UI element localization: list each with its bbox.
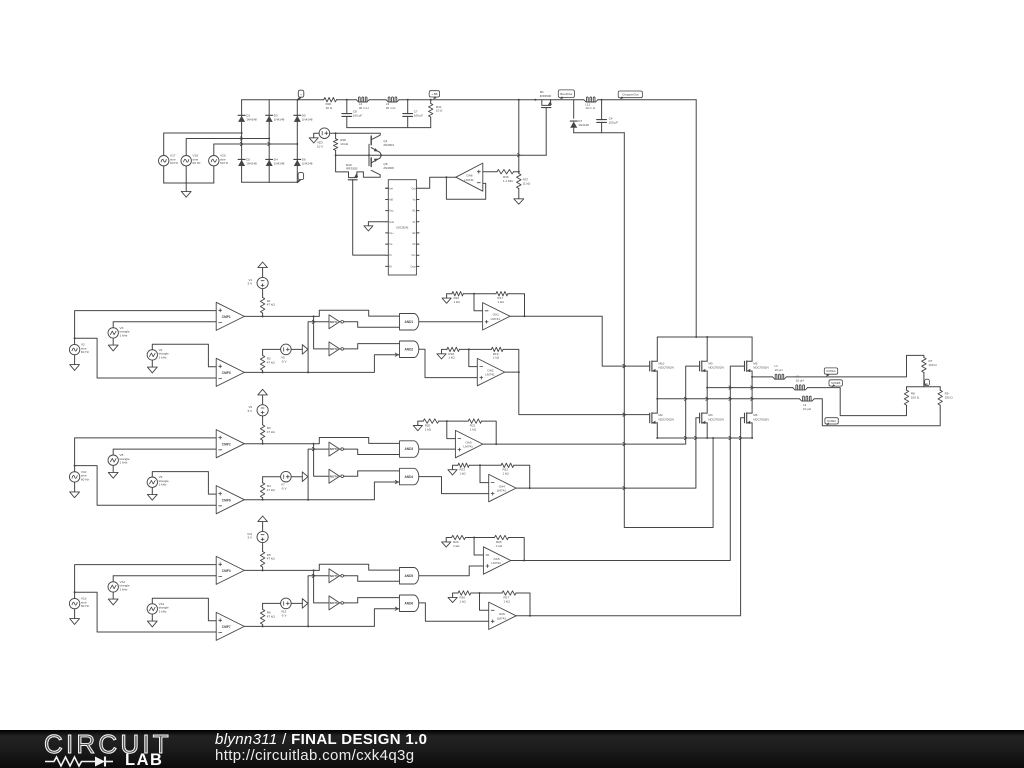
resistor R19 1k [491, 347, 503, 360]
wire M6 source [751, 423, 753, 439]
source V19 sine 60Hz [181, 154, 201, 166]
svg-text:2N3906: 2N3906 [383, 166, 394, 170]
transistor Q8 2N3906 [363, 152, 394, 177]
svg-text:LM741: LM741 [463, 445, 473, 449]
wire R16 to inverting node [463, 293, 496, 295]
wire V8 to CMP2 minus [113, 449, 216, 455]
svg-text:1 kΩ: 1 kΩ [448, 356, 455, 360]
svg-text:1 kΩ: 1 kΩ [493, 356, 500, 360]
wire plus input OA4 [419, 477, 489, 494]
inverter NOT1 [329, 315, 345, 329]
ground R26 [448, 593, 458, 603]
svg-text:+ BB: + BB [431, 92, 437, 96]
svg-text:1 kHz: 1 kHz [159, 355, 167, 359]
source V11 5V [247, 516, 268, 543]
svg-text:1N4148: 1N4148 [302, 118, 313, 122]
node flag NODEA [824, 368, 837, 377]
wire V3 to CMP1 minus [113, 322, 216, 328]
wire rectifier top bus [242, 99, 298, 101]
node flag BuckOut [558, 90, 574, 100]
svg-text:AND3: AND3 [405, 447, 414, 451]
svg-text:1 kHz: 1 kHz [120, 333, 128, 337]
comparator CMP3 [216, 556, 244, 584]
wire V20 to bridge column [214, 143, 298, 183]
wire OA4 output to gate [516, 418, 700, 488]
svg-text:1 kHz: 1 kHz [120, 587, 128, 591]
svg-text:InB: InB [389, 199, 393, 202]
comparator CMP2 [216, 430, 244, 458]
svg-text:NOT2: NOT2 [330, 347, 338, 351]
node flag N [924, 379, 929, 386]
svg-text:10 V: 10 V [317, 145, 323, 149]
wire CMP3 to AND5 [314, 564, 400, 570]
svg-text:AND5: AND5 [405, 574, 414, 578]
footer text [215, 732, 427, 764]
wire V13 to CMP3 plus [74, 565, 217, 599]
node flag bridge negative corner [297, 173, 303, 183]
wire M4 drain [706, 388, 709, 414]
svg-text:5 V: 5 V [248, 409, 253, 413]
svg-text:1 kΩ: 1 kΩ [503, 472, 510, 476]
resistor R20 1k [423, 419, 439, 432]
source V4 triangle 1kHz [147, 348, 169, 360]
resistor R36 1.1M [497, 170, 514, 183]
diode D2 1N4148 [238, 158, 257, 166]
svg-text:NDC7002N: NDC7002N [753, 366, 768, 370]
wire inverting input OA3 [447, 421, 456, 439]
transistor M3 NDC7002N [700, 361, 724, 372]
resistor R8 100 Ohm [904, 387, 919, 410]
source V3 triangle 1kHz [108, 326, 130, 338]
ground V3 [108, 338, 118, 351]
source V6 5V [248, 389, 269, 416]
source V8 triangle 1kHz [108, 453, 130, 465]
wire CMP7 output [244, 625, 309, 627]
svg-text:100 Ω: 100 Ω [945, 395, 954, 399]
wire inverting input OA2 [469, 349, 478, 366]
wire M10 source to phase A [656, 371, 658, 400]
wire CMP2 output [244, 443, 314, 445]
ground V10 [70, 482, 80, 498]
svg-text:-5 V: -5 V [281, 487, 287, 491]
resistor R31 10 Ohm [429, 100, 444, 128]
svg-text:NOT3: NOT3 [330, 447, 338, 451]
wire OA3 output to gate [483, 366, 700, 444]
wire R18 to inverting node [459, 348, 491, 350]
wire V17 to bridge column [164, 132, 243, 183]
svg-text:100 Ω: 100 Ω [911, 395, 920, 399]
resistor R17 1k [496, 292, 508, 305]
svg-text:60 Hz: 60 Hz [81, 477, 90, 481]
wire V10 branch to CMP6 minus [75, 466, 217, 506]
wire plus input OA6 [419, 603, 489, 621]
svg-text:LM741: LM741 [491, 561, 501, 565]
wire NOT1 to AND1 [345, 322, 400, 327]
inductor L1 10uH [773, 364, 787, 379]
wire CMP5 to NOT1 [308, 320, 329, 372]
wire R26 to inverting node [471, 592, 502, 594]
wire NOT4 to AND4 [345, 471, 400, 476]
svg-text:NOT6: NOT6 [330, 601, 338, 605]
op-amp OA2 LM741 [477, 358, 504, 385]
transistor Q1 2N3904 [369, 133, 394, 166]
diode D6 1N4148 [294, 158, 313, 166]
wire OA8 plus input [483, 171, 497, 173]
wire CMP5 output [244, 371, 309, 373]
inductor L3 10uH [800, 396, 815, 411]
resistor R27 1k [502, 591, 516, 604]
resistor R22 1k [501, 463, 514, 476]
svg-text:47 kΩ: 47 kΩ [267, 303, 276, 307]
svg-text:Gnd: Gnd [389, 221, 394, 224]
source V2 sine 60Hz [69, 343, 89, 355]
svg-text:LM741: LM741 [497, 489, 507, 493]
wire feedback OA5 [509, 538, 526, 562]
svg-text:LM741: LM741 [491, 317, 501, 321]
wire OA8 to IC pin1 [419, 177, 446, 188]
wire M10 drain [656, 337, 658, 361]
svg-text:-5 V: -5 V [281, 613, 287, 617]
comparator CMP6 [216, 486, 244, 514]
node flag ChopperOut [618, 91, 642, 99]
resistor R3 47k [260, 416, 275, 444]
svg-text:47 kΩ: 47 kΩ [267, 361, 276, 365]
wire plus input OA2 [419, 349, 478, 377]
svg-text:100 µF: 100 µF [609, 120, 619, 124]
op-amp OA6 LM741 [489, 602, 516, 629]
ground R20 [413, 421, 423, 431]
svg-text:(SG3524): (SG3524) [396, 226, 408, 230]
wire L4 to L3 [369, 99, 386, 101]
wire M5 source to phase C [751, 371, 753, 378]
svg-text:ChopperOut: ChopperOut [622, 92, 639, 96]
ground R18 [437, 349, 447, 359]
wire CMP7 to AND6 [308, 607, 399, 626]
svg-text:1 kHz: 1 kHz [159, 483, 167, 487]
wire source common rail [164, 182, 214, 184]
transistor M4 NDC7002N [700, 413, 724, 424]
wire CMP2 to AND3 [314, 438, 400, 444]
svg-text:30 m H: 30 m H [386, 106, 396, 110]
svg-text:NOT1: NOT1 [330, 320, 338, 324]
svg-text:CMP6: CMP6 [222, 498, 231, 502]
svg-text:60 Hz: 60 Hz [81, 604, 90, 608]
transistor M1 IRF9530 buck switch [540, 90, 552, 108]
svg-text:1N4148: 1N4148 [302, 162, 313, 166]
wire CMP1 to NOT2 [314, 316, 329, 349]
svg-text:M10: M10 [659, 361, 665, 365]
svg-text:30 m H: 30 m H [359, 106, 369, 110]
wire feedback OA2 [503, 349, 520, 373]
comparator CMP1 [216, 302, 244, 330]
ground V12 [108, 592, 118, 605]
wire feedback OA3 [482, 421, 498, 445]
wire V12 to CMP3 minus [113, 576, 216, 582]
resistor R21 1k [468, 419, 481, 432]
svg-text:1 kΩ: 1 kΩ [496, 544, 503, 548]
op-amp OA3 LM741 [455, 430, 482, 457]
wire CMP3 output [244, 569, 314, 571]
ground R24 [442, 538, 452, 548]
source V14 triangle 1kHz [147, 602, 169, 614]
svg-text:1 kΩ: 1 kΩ [470, 427, 477, 431]
wire V10 to CMP2 plus [74, 438, 217, 472]
svg-text:1N4148: 1N4148 [578, 123, 589, 127]
svg-text:47 kΩ: 47 kΩ [267, 488, 276, 492]
wire chopper negative rail [574, 132, 625, 134]
IC U1 SG3524 PWM controller [386, 180, 419, 275]
svg-text:CMP2: CMP2 [222, 442, 231, 446]
source V13 sine 60Hz [69, 597, 89, 609]
diode D1 1N4148 [238, 114, 257, 122]
svg-text:1 kHz: 1 kHz [120, 461, 128, 465]
ground V4 [147, 360, 157, 373]
transistor M2 NDC7002N [650, 413, 674, 424]
svg-text:CMP5: CMP5 [222, 371, 231, 375]
svg-text:M3: M3 [708, 361, 712, 365]
wire divider node to bus [518, 100, 520, 172]
wire M4 source [706, 423, 708, 439]
svg-text:M5: M5 [753, 361, 757, 365]
wire phase C rail [657, 398, 799, 400]
wire phase B rail [707, 387, 793, 389]
wire M3 source to phase B [706, 371, 708, 389]
svg-text:NODEC: NODEC [827, 419, 836, 423]
ground V14 [147, 614, 157, 627]
ground V8 [108, 465, 118, 478]
AND gate AND1 [400, 314, 419, 331]
resistor R37 11k [517, 172, 531, 199]
svg-text:NDC7002N: NDC7002N [708, 418, 723, 422]
svg-text:10 Ω: 10 Ω [436, 109, 443, 113]
wire plus input OA3 [419, 448, 455, 450]
svg-text:1 kΩ: 1 kΩ [498, 300, 505, 304]
svg-text:47 kΩ: 47 kΩ [267, 430, 276, 434]
svg-text:NOT4: NOT4 [330, 474, 338, 478]
svg-text:IRF9530: IRF9530 [540, 94, 552, 98]
svg-text:NOT5: NOT5 [330, 574, 338, 578]
inductor L3 30mH [386, 97, 399, 110]
svg-text:CMP3: CMP3 [222, 569, 231, 573]
wire plus input OA1 [419, 321, 482, 323]
ground R37 [514, 198, 524, 204]
svg-text:NODEB: NODEB [831, 381, 840, 385]
wire neutral rail [907, 386, 941, 388]
wire inverting input OA6 [480, 593, 489, 610]
wire feedback OA4 [514, 465, 531, 489]
transistor M19 IRF5305 [346, 163, 358, 180]
AND gate AND4 [400, 468, 419, 485]
wire OA2 output to gate [505, 372, 650, 416]
wire V13 branch to CMP7 minus [75, 592, 217, 632]
wire bridge column 2 [268, 100, 270, 183]
source V1 5V [248, 262, 269, 289]
svg-text:1 kΩ: 1 kΩ [459, 472, 466, 476]
wire OA1 output to gate [510, 316, 650, 367]
source V12 triangle 1kHz [108, 580, 130, 592]
svg-text:NODEA: NODEA [826, 369, 835, 373]
wire R23 to inverting node [469, 464, 501, 466]
svg-text:30 Ω: 30 Ω [326, 106, 333, 110]
ground VE3 [309, 133, 319, 143]
svg-text:CMP7: CMP7 [222, 625, 231, 629]
wire bridge column 3 [296, 100, 298, 183]
wire M1 to L11 [551, 99, 584, 101]
wire M2 source [656, 423, 658, 439]
wire M3 drain [706, 337, 708, 361]
wire base drive rail [335, 154, 547, 157]
source V7 -5V [281, 471, 308, 490]
wire NOT6 to AND6 [345, 598, 400, 603]
wire NOT2 to AND2 [345, 344, 400, 349]
wire V19 to bridge column [186, 138, 270, 184]
svg-text:60 Hz: 60 Hz [170, 161, 179, 165]
inverter NOT6 [329, 596, 345, 610]
wire L1 to R7 [786, 355, 924, 377]
svg-text:100 Ω: 100 Ω [929, 363, 938, 367]
wire OA8 output node [445, 176, 455, 178]
svg-text:10 µH: 10 µH [775, 368, 783, 372]
wire filter bottom rail [347, 127, 431, 129]
capacitor C8 100uF [342, 100, 362, 128]
AND gate AND6 [400, 595, 419, 612]
capacitor C7 100uF [403, 100, 423, 128]
resistor R5 47k [260, 543, 275, 571]
inductor L4 30mH [356, 97, 369, 110]
resistor R38 10k [333, 133, 348, 155]
svg-text:Rt: Rt [389, 265, 392, 268]
svg-text:1 kΩ: 1 kΩ [453, 544, 460, 548]
svg-text:2N3904: 2N3904 [383, 143, 394, 147]
svg-text:AND6: AND6 [405, 602, 414, 606]
wire phase A rail [752, 376, 773, 378]
svg-text:InA: InA [389, 187, 393, 190]
wire feedback OA6 [516, 593, 531, 617]
wire M19 drain to Q8 [357, 171, 364, 173]
wire M2 drain [656, 399, 658, 413]
svg-text:Ct: Ct [389, 254, 392, 257]
op-amp OA1 LM741 [483, 303, 510, 330]
svg-text:1N4148: 1N4148 [274, 118, 285, 122]
svg-text:5 V: 5 V [248, 282, 253, 286]
svg-text:N: N [926, 383, 928, 386]
svg-text:M4: M4 [708, 413, 712, 417]
resistor R23 1k [458, 463, 469, 476]
AND gate AND2 [400, 341, 419, 358]
AND gate AND5 [400, 568, 419, 585]
resistor R9 100 Ohm [938, 387, 953, 410]
node flag +BB [429, 91, 439, 100]
wire NOT5 to AND5 [345, 576, 400, 581]
svg-text:CL+: CL+ [389, 232, 394, 235]
svg-text:1N4148: 1N4148 [274, 162, 285, 166]
wire inverting input OA5 [474, 538, 483, 556]
wire CMP6 output [244, 499, 309, 501]
svg-text:60 Hz: 60 Hz [220, 161, 229, 165]
wire V9 to CMP6 plus [152, 472, 216, 495]
wire OA6 output to gate [516, 418, 744, 616]
svg-text:Cmp: Cmp [410, 265, 416, 268]
svg-text:100 µF: 100 µF [414, 114, 424, 118]
wire chopper positive down to bridge [695, 100, 697, 337]
op-amp OA5 LM741 [483, 547, 510, 574]
resistor R2 47k [260, 349, 280, 372]
diode D4 1N4148 [266, 158, 285, 166]
CircuitLab logo [44, 731, 184, 767]
svg-text:-5 V: -5 V [281, 359, 287, 363]
wire CMP3 to NOT6 [314, 570, 329, 603]
diode D5 1N4148 [294, 114, 313, 122]
source V10 sine 60Hz [69, 470, 89, 482]
node flag NODEC [825, 418, 838, 426]
svg-text:60 Hz: 60 Hz [81, 350, 90, 354]
svg-text:100 µF: 100 µF [353, 114, 363, 118]
svg-text:AND4: AND4 [405, 475, 414, 479]
wire rectifier bottom bus [242, 181, 298, 183]
resistor R26 1k [458, 591, 471, 604]
wire V14 to CMP7 plus [152, 598, 216, 621]
svg-text:1.1 MΩ: 1.1 MΩ [503, 179, 514, 183]
svg-text:M6: M6 [753, 413, 757, 417]
wire V4 to CMP5 plus [152, 344, 216, 367]
wire L3 to M1 [399, 99, 551, 101]
source V9 triangle 1kHz [147, 475, 169, 487]
op-amp OA8 LM741 [456, 163, 483, 191]
svg-text:AND1: AND1 [405, 320, 414, 324]
wire OA5 output to gate [511, 366, 745, 560]
svg-text:5 V: 5 V [248, 536, 253, 540]
resistor R4 47k [260, 477, 280, 500]
svg-text:10 m H: 10 m H [585, 106, 595, 110]
transistor M10 NDC7002N [650, 361, 674, 372]
svg-text:10 µH: 10 µH [803, 407, 811, 411]
svg-text:NDC7002N: NDC7002N [659, 366, 674, 370]
svg-text:1 kΩ: 1 kΩ [454, 300, 461, 304]
wire crossing hops phases [240, 137, 270, 146]
wire bridge bottom bus [657, 437, 752, 439]
svg-text:NDC7002N: NDC7002N [753, 418, 768, 422]
ground V9 [147, 487, 157, 500]
wire L2 to R8 [808, 388, 907, 416]
ground R16 [442, 294, 452, 304]
wire R24 to inverting node [466, 537, 495, 539]
resistor R7 100 Ohm [922, 358, 938, 387]
resistor R30 30 Ohm [324, 98, 337, 110]
node flag bridge positive corner [298, 90, 304, 100]
wire feedback OA1 [508, 294, 526, 318]
svg-text:BuckOut: BuckOut [560, 92, 572, 96]
diode D7 1N4148 freewheel [570, 100, 589, 133]
wire chopper negative down to bridge [623, 133, 713, 528]
svg-text:LM741: LM741 [497, 616, 507, 620]
svg-text:47 kΩ: 47 kΩ [267, 615, 276, 619]
svg-text:11 kΩ: 11 kΩ [523, 182, 531, 186]
wire VE3 to rail [330, 132, 381, 134]
wire R36 to divider node [514, 171, 520, 173]
wire NOT3 to AND3 [345, 449, 400, 454]
wire CMP1 output [244, 315, 314, 317]
wire M19 gate to IC pin7 [353, 180, 386, 256]
resistor R24 1k [452, 535, 466, 548]
node flag NODEB [829, 380, 842, 388]
inverter NOT4 [329, 469, 345, 483]
wire M5 drain [751, 337, 753, 361]
wire plus input OA5 [419, 566, 483, 576]
op-amp OA4 LM741 [489, 474, 516, 501]
source V17 sine 60Hz [159, 154, 179, 166]
ground sources [181, 183, 191, 197]
svg-text:1 kΩ: 1 kΩ [460, 599, 467, 603]
